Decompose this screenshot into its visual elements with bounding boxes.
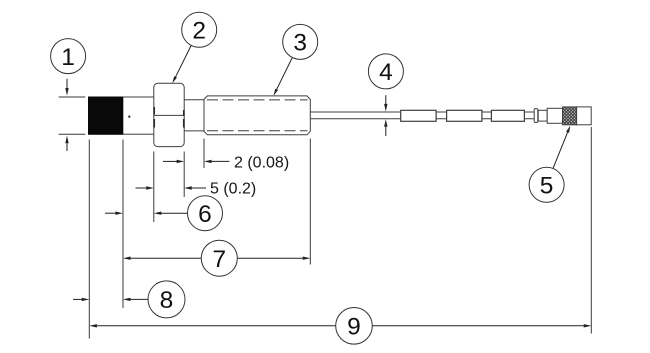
connector sleeve bbox=[547, 108, 562, 123]
threaded housing (dashed thread lines) bbox=[204, 96, 310, 135]
extension line thread-right bbox=[309, 139, 311, 265]
dim 7 right line and arrow bbox=[238, 257, 310, 260]
cable tube bbox=[310, 112, 534, 119]
dim 5(0.2) right arrow and line bbox=[184, 186, 206, 189]
callout circle 6 bbox=[188, 196, 223, 231]
dim 8 left arrow bbox=[73, 298, 89, 301]
dim 2(0.08) left arrow bbox=[163, 160, 184, 163]
dim text 2 (0.08) bbox=[234, 154, 289, 171]
connector flange ring bbox=[534, 109, 538, 123]
extension line block-left bbox=[88, 140, 90, 339]
cable sleeve segment 3 bbox=[491, 110, 524, 121]
svg-text:4: 4 bbox=[379, 59, 393, 86]
dim 8 right arrow and line bbox=[123, 298, 148, 301]
dim 4 upper arrow bbox=[384, 95, 387, 111]
svg-text:6: 6 bbox=[198, 201, 212, 228]
extension line block-right bbox=[122, 140, 124, 309]
connector end cap bbox=[577, 107, 592, 125]
dim 9 left arrow and line bbox=[89, 324, 335, 327]
leader arrow circle 2 to nut bbox=[172, 45, 191, 83]
svg-text:2: 2 bbox=[192, 18, 206, 45]
svg-text:3: 3 bbox=[293, 30, 307, 57]
svg-text:9: 9 bbox=[347, 314, 361, 341]
dim 5(0.2) left arrow bbox=[136, 186, 154, 189]
cable sleeve segment 1 bbox=[401, 110, 436, 121]
connector rear cylinder bbox=[538, 110, 547, 121]
connector knurled ring bbox=[563, 107, 577, 125]
svg-text:1: 1 bbox=[61, 44, 75, 71]
center dot on barrel bbox=[128, 116, 130, 118]
extension line thread-left bbox=[203, 139, 205, 169]
callout circle 9 bbox=[336, 308, 373, 345]
svg-text:5 (0.2): 5 (0.2) bbox=[210, 181, 256, 198]
callout circle 3 bbox=[283, 24, 318, 59]
extension line nut-right bbox=[183, 152, 185, 198]
probe barrel bbox=[89, 97, 156, 134]
svg-text:5: 5 bbox=[540, 173, 554, 200]
dim 2(0.08) right arrow and line bbox=[204, 160, 230, 163]
dim 4 lower arrow bbox=[384, 119, 387, 136]
dim 6 right arrow and line bbox=[154, 212, 188, 215]
svg-text:7: 7 bbox=[212, 246, 226, 273]
sensor tip block (black) bbox=[89, 97, 123, 134]
callout circle 8 bbox=[148, 281, 185, 318]
leader arrow circle 3 to threaded housing bbox=[274, 58, 293, 96]
dim 1 bottom extension line bbox=[59, 133, 86, 135]
callout circle 2 bbox=[182, 12, 217, 47]
svg-text:8: 8 bbox=[160, 287, 174, 314]
extension line connector-right bbox=[590, 127, 592, 334]
dim 7 left arrow bbox=[123, 257, 201, 260]
dim 1 top extension line bbox=[59, 96, 86, 98]
dim text 5 (0.2) bbox=[210, 181, 256, 198]
extension line nut-left bbox=[153, 152, 155, 223]
neck between nut and threaded body bbox=[184, 100, 204, 131]
hex nut bbox=[154, 83, 184, 146]
dim 9 right line and arrow bbox=[373, 324, 592, 327]
dim 6 left arrow bbox=[105, 212, 123, 215]
dim 1 upper arrow bbox=[65, 79, 68, 96]
callout circle 7 bbox=[201, 240, 237, 276]
callout circle 5 bbox=[529, 167, 564, 202]
dim 1 lower arrow bbox=[65, 136, 68, 151]
leader arrow circle 5 to knurled ring bbox=[553, 126, 570, 169]
cable sleeve segment 2 bbox=[447, 110, 482, 121]
callout circle 1 bbox=[51, 39, 86, 74]
callout circle 4 bbox=[368, 54, 403, 89]
svg-text:2 (0.08): 2 (0.08) bbox=[234, 154, 289, 171]
